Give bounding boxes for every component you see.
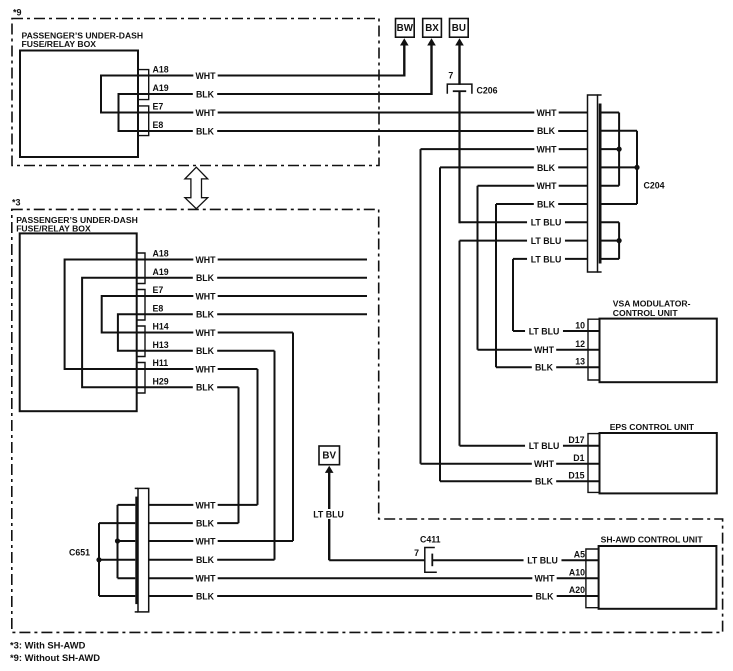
svg-text:BLK: BLK [196, 591, 215, 601]
svg-text:BLK: BLK [196, 126, 215, 136]
svg-text:BLK: BLK [196, 310, 215, 320]
svg-text:BV: BV [322, 451, 336, 462]
svg-text:BLK: BLK [535, 477, 554, 487]
svg-text:LT BLU: LT BLU [313, 509, 344, 519]
svg-text:LT BLU: LT BLU [527, 556, 558, 566]
svg-text:WHT: WHT [534, 574, 555, 584]
svg-text:BLK: BLK [537, 163, 556, 173]
svg-text:H13: H13 [153, 340, 169, 350]
svg-text:D17: D17 [568, 435, 584, 445]
svg-text:BLK: BLK [196, 383, 215, 393]
svg-text:H29: H29 [153, 376, 169, 386]
svg-text:WHT: WHT [536, 108, 557, 118]
svg-text:FUSE/RELAY BOX: FUSE/RELAY BOX [16, 224, 91, 234]
svg-text:BLK: BLK [196, 273, 215, 283]
svg-text:BW: BW [397, 23, 414, 34]
svg-text:C411: C411 [420, 535, 441, 545]
svg-text:A18: A18 [153, 249, 169, 259]
svg-text:E7: E7 [153, 285, 164, 295]
svg-text:WHT: WHT [195, 536, 216, 546]
svg-text:WHT: WHT [534, 345, 555, 355]
svg-text:A18: A18 [153, 65, 169, 75]
svg-text:E8: E8 [153, 120, 164, 130]
svg-text:A19: A19 [153, 83, 169, 93]
svg-text:SH-AWD CONTROL UNIT: SH-AWD CONTROL UNIT [601, 535, 704, 545]
svg-text:BLK: BLK [196, 89, 215, 99]
svg-text:*9: Without SH-AWD: *9: Without SH-AWD [10, 652, 100, 663]
svg-text:A5: A5 [574, 550, 585, 560]
svg-text:WHT: WHT [536, 181, 557, 191]
svg-text:BLK: BLK [537, 126, 556, 136]
svg-text:BLK: BLK [196, 555, 215, 565]
svg-text:10: 10 [575, 321, 585, 331]
svg-text:WHT: WHT [195, 108, 216, 118]
svg-text:WHT: WHT [195, 291, 216, 301]
svg-text:D15: D15 [568, 471, 584, 481]
svg-text:7: 7 [414, 548, 419, 558]
svg-text:C651: C651 [69, 548, 90, 558]
svg-text:LT BLU: LT BLU [529, 441, 560, 451]
svg-text:*9: *9 [13, 8, 22, 18]
svg-text:CONTROL UNIT: CONTROL UNIT [613, 308, 679, 318]
svg-text:BLK: BLK [537, 199, 556, 209]
svg-text:LT BLU: LT BLU [531, 254, 562, 264]
svg-text:WHT: WHT [195, 71, 216, 81]
svg-text:BLK: BLK [535, 363, 554, 373]
svg-text:A10: A10 [569, 567, 585, 577]
svg-text:*3: With SH-AWD: *3: With SH-AWD [10, 640, 86, 651]
svg-text:LT BLU: LT BLU [529, 326, 560, 336]
svg-text:WHT: WHT [195, 255, 216, 265]
svg-text:VSA MODULATOR-: VSA MODULATOR- [613, 299, 691, 309]
svg-text:13: 13 [575, 357, 585, 367]
svg-text:BU: BU [452, 23, 466, 34]
svg-text:BLK: BLK [196, 519, 215, 529]
svg-text:C204: C204 [644, 180, 665, 190]
svg-text:WHT: WHT [195, 500, 216, 510]
svg-text:WHT: WHT [195, 574, 216, 584]
svg-text:WHT: WHT [195, 328, 216, 338]
svg-text:FUSE/RELAY BOX: FUSE/RELAY BOX [22, 39, 97, 49]
svg-text:A20: A20 [569, 585, 585, 595]
svg-text:C206: C206 [477, 86, 498, 96]
svg-text:WHT: WHT [534, 459, 555, 469]
svg-text:BLK: BLK [196, 346, 215, 356]
svg-text:E8: E8 [153, 303, 164, 313]
svg-text:LT BLU: LT BLU [531, 236, 562, 246]
svg-text:12: 12 [575, 339, 585, 349]
svg-text:BLK: BLK [535, 591, 554, 601]
svg-text:WHT: WHT [195, 364, 216, 374]
svg-text:LT BLU: LT BLU [531, 218, 562, 228]
svg-text:WHT: WHT [536, 145, 557, 155]
svg-text:BX: BX [425, 23, 439, 34]
svg-text:E7: E7 [153, 102, 164, 112]
svg-text:A19: A19 [153, 267, 169, 277]
svg-text:D1: D1 [573, 453, 584, 463]
svg-text:*3: *3 [12, 198, 21, 208]
svg-text:EPS CONTROL UNIT: EPS CONTROL UNIT [610, 422, 695, 432]
svg-text:H14: H14 [153, 322, 169, 332]
svg-text:7: 7 [448, 71, 453, 81]
svg-text:H11: H11 [153, 358, 169, 368]
